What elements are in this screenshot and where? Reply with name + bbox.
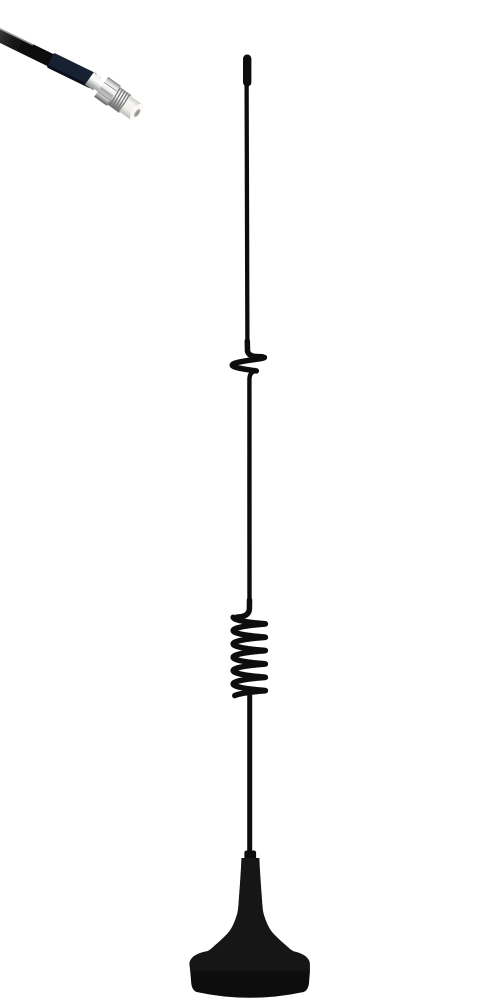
phasing-loop entry bend: [247, 341, 262, 357]
coil entry bend: [237, 600, 250, 617]
rod below phasing loop: [249, 372, 253, 604]
PTFE white tip: [119, 96, 142, 120]
whip rod upper: [244, 82, 249, 346]
tip center hole: [133, 108, 142, 118]
phasing loop: [232, 357, 264, 371]
connector crimp ferrule: [85, 72, 102, 90]
base neck and trumpet flare: [206, 858, 295, 952]
cable top highlight: [0, 23, 33, 45]
hex nut: [94, 77, 121, 106]
connector neck: [94, 80, 104, 92]
tip front face: [128, 102, 146, 123]
threaded barrel: [107, 87, 131, 113]
base ferrule collar: [244, 851, 256, 866]
magnetic base disc: [189, 951, 310, 998]
hex facet edges: [98, 82, 117, 100]
antenna whip tip: [243, 55, 251, 87]
thread ridges: [108, 87, 131, 112]
rod below coil: [247, 694, 252, 852]
heat shrink tube: [47, 53, 97, 89]
loading coil: [233, 617, 265, 695]
shrink edge shade: [47, 65, 91, 89]
inset: coax cable with FME connector: [0, 22, 97, 88]
coax cable: [0, 23, 57, 67]
